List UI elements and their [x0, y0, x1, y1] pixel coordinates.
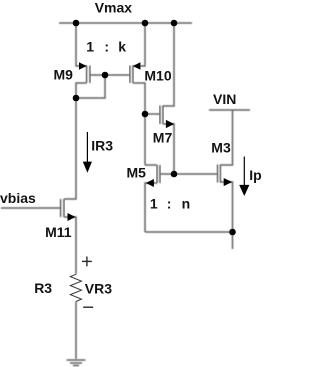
node M5/M3 gate [171, 171, 178, 178]
minus sign [83, 306, 93, 308]
wire VIN terminal bar [209, 109, 250, 111]
node gate M9/M10 [102, 72, 109, 79]
wire M7 source down to gate node [163, 124, 174, 174]
svg-text:Vmax: Vmax [95, 0, 133, 16]
transistor M9 [79, 62, 90, 83]
node Vmax-M10 [142, 20, 149, 27]
svg-text:VIN: VIN [213, 91, 236, 107]
transistor M7 [160, 106, 174, 129]
svg-text:M3: M3 [211, 139, 231, 155]
wire M10 source from Vmax [133, 23, 145, 66]
node Vmax-M7 [171, 20, 178, 27]
wire M9 gate feedback [76, 75, 105, 98]
node Vmax-M9 [73, 20, 80, 27]
node M10 drain / M7 gate [142, 111, 149, 118]
wire M9 source from Vmax [76, 23, 87, 66]
svg-text:vbias: vbias [0, 190, 36, 206]
svg-text:VR3: VR3 [85, 281, 112, 297]
wire M9 drain to node A [76, 83, 87, 98]
transistor M11 [61, 199, 76, 221]
svg-text:M10: M10 [144, 68, 171, 84]
wire node A down to M11 drain [64, 98, 76, 199]
node output [229, 229, 236, 236]
svg-text:Ip: Ip [249, 167, 261, 183]
svg-text:M9: M9 [54, 67, 74, 83]
label 1 : k [86, 38, 126, 54]
wire M7 gate lead [145, 113, 160, 115]
svg-text:IR3: IR3 [91, 137, 113, 153]
wire bottom source line [145, 231, 233, 233]
node A (M9 drain) [73, 95, 80, 102]
plus sign [82, 257, 92, 267]
label 1 : n [150, 196, 190, 212]
svg-text:M11: M11 [45, 224, 72, 240]
current arrow IR3 [83, 132, 92, 173]
current arrow Ip [239, 157, 249, 197]
wire M5 source down [145, 183, 157, 232]
wire Vmax rail [59, 22, 192, 24]
wire M3 source down [221, 182, 233, 232]
svg-text::: : [104, 38, 109, 54]
svg-text:n: n [182, 196, 191, 212]
wire M11 source down to R3 [64, 217, 76, 274]
transistor M3 [217, 165, 232, 187]
wire M5 drain lead [145, 164, 157, 166]
svg-text:k: k [118, 38, 126, 54]
ground [67, 360, 86, 366]
wire M10 drain down to M5 drain [133, 83, 145, 165]
svg-text::: : [167, 196, 172, 212]
wire M5-M3 gate line [160, 173, 217, 175]
svg-text:M7: M7 [153, 130, 173, 146]
resistor R3 [70, 274, 81, 301]
svg-text:M5: M5 [127, 164, 147, 180]
wire output stub [232, 232, 234, 249]
wire M3 drain to VIN [221, 110, 233, 165]
svg-text:1: 1 [86, 38, 94, 54]
transistor M5 [146, 165, 160, 187]
wire R3 bottom to ground [75, 302, 77, 360]
wire vbias to M11 gate [1, 207, 61, 209]
transistor M10 [130, 62, 141, 83]
svg-text:1: 1 [150, 196, 158, 212]
wire M7 drain to Vmax [163, 23, 174, 106]
wire M9-M10 gate line [90, 74, 130, 76]
svg-text:R3: R3 [34, 280, 52, 296]
